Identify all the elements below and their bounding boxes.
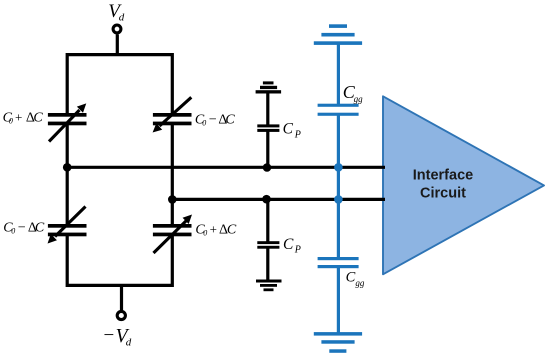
svg-text:d: d: [126, 337, 132, 349]
svg-text:C: C: [227, 223, 237, 238]
svg-text:0: 0: [203, 229, 207, 238]
svg-text:Circuit: Circuit: [420, 186, 466, 202]
svg-text:d: d: [119, 12, 125, 24]
svg-text:−: −: [18, 221, 26, 236]
svg-text:Interface: Interface: [413, 168, 473, 184]
svg-text:C: C: [283, 120, 294, 137]
svg-text:+: +: [210, 222, 217, 237]
svg-text:P: P: [294, 130, 301, 141]
svg-text:0: 0: [9, 117, 13, 126]
svg-text:P: P: [294, 244, 301, 255]
svg-text:C: C: [283, 236, 294, 253]
svg-text:C: C: [35, 221, 45, 236]
svg-text:+: +: [15, 110, 22, 125]
svg-text:−: −: [104, 325, 115, 346]
svg-text:0: 0: [202, 119, 206, 128]
svg-text:gg: gg: [355, 278, 365, 288]
svg-text:gg: gg: [354, 94, 364, 104]
svg-text:−: −: [209, 113, 217, 128]
svg-text:0: 0: [11, 227, 15, 236]
svg-text:C: C: [346, 270, 356, 286]
svg-text:C: C: [33, 111, 43, 126]
svg-text:C: C: [225, 113, 235, 128]
